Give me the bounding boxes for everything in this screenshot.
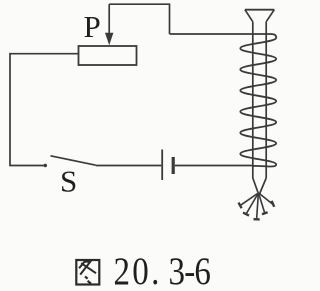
svg-text:P: P: [84, 9, 101, 44]
svg-text:S: S: [60, 164, 77, 199]
svg-text:3-6: 3-6: [169, 250, 211, 291]
svg-text:20.: 20.: [114, 250, 162, 291]
